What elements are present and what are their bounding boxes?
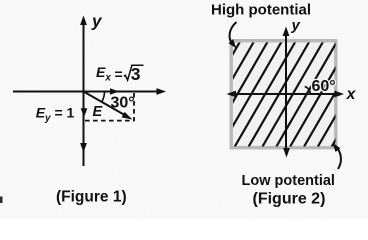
svg-text:y: y bbox=[91, 12, 103, 31]
svg-text:x: x bbox=[346, 86, 357, 103]
svg-text:E: E bbox=[93, 104, 104, 120]
svg-text:(Figure 2): (Figure 2) bbox=[253, 191, 326, 208]
svg-text:Low potential: Low potential bbox=[242, 173, 335, 189]
svg-text:30°: 30° bbox=[111, 95, 135, 112]
svg-text:(Figure 1): (Figure 1) bbox=[56, 189, 127, 206]
svg-text:60°: 60° bbox=[312, 78, 336, 95]
svg-text:=: = bbox=[115, 66, 123, 82]
svg-text:High potential: High potential bbox=[211, 2, 311, 19]
svg-text:y: y bbox=[291, 17, 301, 34]
svg-text:3: 3 bbox=[131, 64, 141, 84]
